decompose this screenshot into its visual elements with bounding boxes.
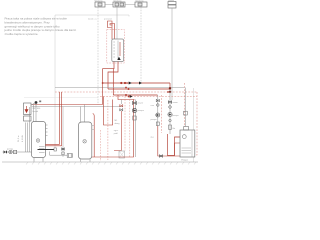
svg-text:WP 300: WP 300 bbox=[33, 108, 42, 110]
flue damper box bbox=[184, 111, 188, 115]
right circuit column bbox=[169, 89, 171, 134]
manifold gray line bbox=[55, 87, 185, 89]
red loop to gas boiler bbox=[168, 134, 181, 156]
heating loop 1 labels bbox=[114, 130, 119, 135]
mixing labels bbox=[115, 120, 120, 125]
distribution line to tanks (red) bbox=[32, 83, 103, 105]
svg-text:Vitotronic: Vitotronic bbox=[136, 0, 144, 3]
red pipe boiler to manifold left bbox=[103, 62, 118, 96]
room wall outline bbox=[55, 15, 194, 162]
svg-text:podl.: podl. bbox=[114, 133, 119, 135]
svg-text:kociol c.o.: kociol c.o. bbox=[88, 19, 97, 21]
link C1-C2 bbox=[105, 4, 113, 6]
svg-text:Vitotronic: Vitotronic bbox=[114, 0, 122, 3]
tank B pump circle bbox=[83, 140, 87, 144]
right gauge bbox=[169, 119, 171, 121]
note text block bbox=[4, 17, 77, 37]
safety loop pipe above boiler bbox=[108, 21, 115, 39]
right check box bbox=[169, 125, 172, 129]
mixing bottom box bbox=[119, 151, 125, 158]
manifold red line 4 bbox=[118, 95, 135, 100]
pump group arrow bbox=[25, 106, 28, 113]
svg-text:pompa: pompa bbox=[7, 149, 14, 151]
CH check valve box bbox=[133, 116, 136, 120]
faint link line bbox=[24, 97, 98, 99]
floor hatching bbox=[26, 162, 196, 165]
tank A pump circle bbox=[36, 139, 40, 143]
svg-text:zawor: zawor bbox=[138, 102, 144, 105]
bottom-left pipe line bbox=[3, 151, 32, 153]
red dashed horizontal 2 bbox=[100, 96, 197, 98]
svg-text:Vitotronic: Vitotronic bbox=[95, 0, 103, 3]
svg-text:ogrz.: ogrz. bbox=[114, 130, 119, 132]
tank B right stubs bbox=[92, 126, 94, 130]
drop from C2 bbox=[116, 7, 118, 39]
tank A pipe left bbox=[29, 107, 31, 152]
controller C3 bbox=[135, 2, 147, 7]
svg-text:czujnik: czujnik bbox=[168, 0, 174, 2]
gas boiler bbox=[180, 130, 195, 157]
mixing circuit dashed companion bbox=[124, 97, 126, 151]
svg-text:Vitogas: Vitogas bbox=[181, 159, 188, 162]
drain valve bbox=[62, 148, 65, 151]
tank A top stubs bbox=[34, 105, 37, 122]
mixing circuit drop bbox=[114, 111, 121, 151]
heater terminal box bbox=[54, 148, 56, 151]
svg-text:obieg: obieg bbox=[115, 123, 120, 125]
DHW pump bbox=[156, 113, 160, 117]
arrow at manifold bbox=[139, 82, 142, 85]
junction blob right column bbox=[169, 87, 171, 89]
floor meter bbox=[67, 154, 72, 158]
tank A bbox=[32, 122, 46, 158]
DHW box bbox=[156, 122, 159, 126]
DHW lower red run to gas boiler bbox=[158, 126, 180, 156]
red pipe tank B right bbox=[93, 114, 95, 158]
CH circuit column bbox=[92, 100, 134, 158]
sensor C4 bbox=[168, 2, 176, 9]
boiler inner red line bbox=[119, 42, 121, 56]
svg-text:filtr: filtr bbox=[173, 127, 176, 130]
right valve bbox=[168, 101, 171, 104]
svg-text:4,1 kW: 4,1 kW bbox=[22, 134, 24, 142]
CH labels bbox=[138, 102, 145, 113]
floor line to meter bbox=[50, 152, 68, 156]
boiler inner ticks bbox=[113, 41, 118, 61]
arrow at manifold 2 bbox=[130, 95, 133, 98]
red pipes to tank B bbox=[45, 92, 61, 146]
svg-text:pompa: pompa bbox=[173, 115, 180, 117]
controller C1 bbox=[95, 2, 105, 7]
drop from C3 bbox=[140, 7, 142, 83]
mixing valve symbols bbox=[120, 105, 123, 108]
dashed drop 2 bbox=[100, 130, 102, 161]
tank B bbox=[79, 122, 92, 159]
vertical labels near pipes bbox=[18, 134, 24, 142]
tank B top stubs bbox=[81, 105, 85, 123]
bottom-left check valve bbox=[4, 150, 7, 154]
bottom-left filter box bbox=[14, 150, 17, 153]
pump dot bbox=[35, 101, 38, 104]
dashed drop from C1 bbox=[97, 7, 99, 105]
CH valve bbox=[133, 102, 137, 105]
floor line bbox=[2, 161, 198, 163]
mixing circuit column bbox=[120, 100, 122, 105]
drop line from C4 bbox=[171, 8, 173, 100]
manifold red dashed line bbox=[55, 91, 197, 93]
svg-text:zrodla ciepla w systemie.: zrodla ciepla w systemie. bbox=[5, 32, 39, 36]
junction dots bbox=[102, 82, 171, 98]
gas boiler circle bbox=[182, 135, 186, 139]
drain box bbox=[62, 152, 65, 155]
DHW labels bbox=[151, 105, 158, 139]
manifold red line 3 bbox=[113, 94, 157, 96]
manifold red line 2 bbox=[108, 88, 170, 90]
right pump bbox=[168, 112, 172, 116]
tank A feet bbox=[34, 158, 43, 162]
pump dot link bbox=[31, 103, 36, 106]
svg-text:zawor: zawor bbox=[173, 102, 179, 104]
svg-text:cwu: cwu bbox=[151, 105, 155, 107]
gas boiler inner lines bbox=[182, 148, 192, 153]
tank B feet bbox=[81, 159, 91, 162]
red dashed drop mid-right bbox=[161, 95, 163, 133]
heating loop 1 dashed drop bbox=[107, 100, 109, 160]
svg-text:51,0 m: 51,0 m bbox=[18, 135, 20, 142]
tank A side stubs bbox=[46, 125, 48, 136]
red dashed zone around boiler bbox=[107, 30, 125, 64]
pipes from pump group down bbox=[26, 123, 28, 153]
tank A coil bbox=[39, 147, 45, 153]
manifold red line 1 bbox=[103, 83, 170, 89]
drain line with valve bbox=[62, 107, 64, 158]
svg-text:pompa: pompa bbox=[138, 110, 145, 112]
bottom-left pump bbox=[9, 150, 12, 153]
svg-text:przewod: przewod bbox=[104, 19, 112, 21]
tank A heater element bbox=[38, 149, 55, 151]
boiler (heat pump unit) bbox=[112, 39, 124, 62]
svg-text:25 l: 25 l bbox=[151, 137, 155, 139]
DHW small circle bbox=[157, 104, 160, 107]
DHW circuit column bbox=[157, 95, 159, 126]
svg-text:pompa: pompa bbox=[151, 119, 158, 121]
dashed line left of CH column bbox=[129, 97, 131, 158]
red dashed drop right bbox=[193, 92, 197, 155]
heating loop 1 bbox=[104, 97, 113, 126]
gas boiler flue bbox=[184, 127, 189, 131]
right small circle bbox=[169, 106, 172, 109]
distribution line to tanks (gray) bbox=[32, 106, 123, 108]
flue line above gas boiler bbox=[184, 88, 186, 127]
controller C2 bbox=[113, 2, 125, 7]
red dashed drop far-right bbox=[184, 83, 186, 127]
pump group labels bbox=[33, 108, 42, 113]
DHW bottom valve bbox=[160, 154, 163, 157]
DHW valve bbox=[156, 99, 159, 102]
pump group box bbox=[24, 103, 32, 121]
link C2-C3 bbox=[125, 4, 135, 6]
boiler burner triangle bbox=[117, 57, 120, 60]
right labels bbox=[173, 102, 180, 130]
CH pump bbox=[132, 108, 136, 112]
